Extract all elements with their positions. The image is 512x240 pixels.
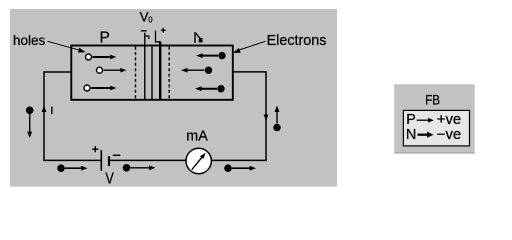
svg-text:holes: holes (13, 33, 46, 48)
battery plus sign (92, 146, 98, 152)
hole h3 (84, 85, 90, 91)
svg-text:P: P (406, 112, 416, 128)
plus sign of V0 (161, 28, 166, 33)
electron e3 arrow (201, 88, 218, 90)
Electrons pointer arrowhead (233, 48, 241, 53)
electron marker bottom 3 (dot moving right) (224, 164, 232, 172)
electron marker bottom 1 (dot moving right) (57, 164, 65, 172)
svg-text:N: N (406, 127, 416, 143)
svg-text:mA: mA (186, 128, 208, 144)
svg-text:P: P (100, 30, 110, 47)
battery V: positive plate (100, 150, 102, 171)
hole h2 arrow (104, 69, 122, 71)
FB legend panel bottom shade (394, 152, 475, 154)
minus sign of V0 (141, 30, 147, 32)
wire right (N side to ammeter) (211, 72, 266, 160)
svg-text:Electrons: Electrons (267, 32, 327, 49)
electron marker right (dot moving up) (273, 124, 281, 132)
holes pointer line (48, 41, 81, 50)
svg-text:V: V (105, 171, 114, 188)
holes pointer arrowhead (78, 48, 86, 53)
current arrow down on right wire (264, 115, 269, 122)
junction line thick (right plate of V0) (159, 42, 161, 100)
main gray panel (10, 9, 337, 187)
junction line thin (left plate of V0) (144, 33, 146, 100)
electron marker left (dot moving down) (26, 107, 34, 115)
FB legend gray panel (394, 84, 475, 153)
hole h1 arrow (93, 56, 112, 58)
wire bottom (battery to ammeter) (109, 159, 186, 161)
FB legend inner box (403, 110, 469, 145)
electron e3 (217, 85, 224, 92)
hole h2 (97, 67, 103, 73)
electron marker bottom 2 (dot moving right) (123, 164, 131, 172)
V0 left bracket (145, 36, 149, 39)
electron e1 arrow (202, 55, 219, 57)
depletion boundary dashed line (right) (168, 47, 170, 100)
junction line thin (middle) (151, 47, 153, 100)
svg-text:0: 0 (148, 15, 153, 24)
ammeter mA body (186, 148, 211, 173)
electron e1 (218, 52, 225, 59)
current arrow up on left wire (42, 106, 47, 113)
electron e2 (205, 67, 212, 74)
diode body box (71, 46, 233, 100)
svg-text:−ve: −ve (437, 127, 461, 143)
hole h3 arrow (91, 87, 111, 89)
V0 right bracket (156, 31, 161, 42)
battery minus sign (113, 154, 121, 156)
svg-text:+ve: +ve (437, 112, 461, 128)
electron e2 arrow (187, 69, 205, 71)
label I (51, 107, 53, 115)
hole h1 (86, 54, 92, 60)
depletion boundary dashed line (left) (135, 47, 137, 100)
battery V: negative plate (108, 156, 110, 166)
label N region (stylized glyph) (195, 32, 200, 43)
ammeter needle (192, 157, 203, 170)
svg-text:FB: FB (425, 93, 440, 108)
Electrons pointer line (239, 41, 266, 50)
wire left (P side to battery +) (44, 72, 101, 160)
